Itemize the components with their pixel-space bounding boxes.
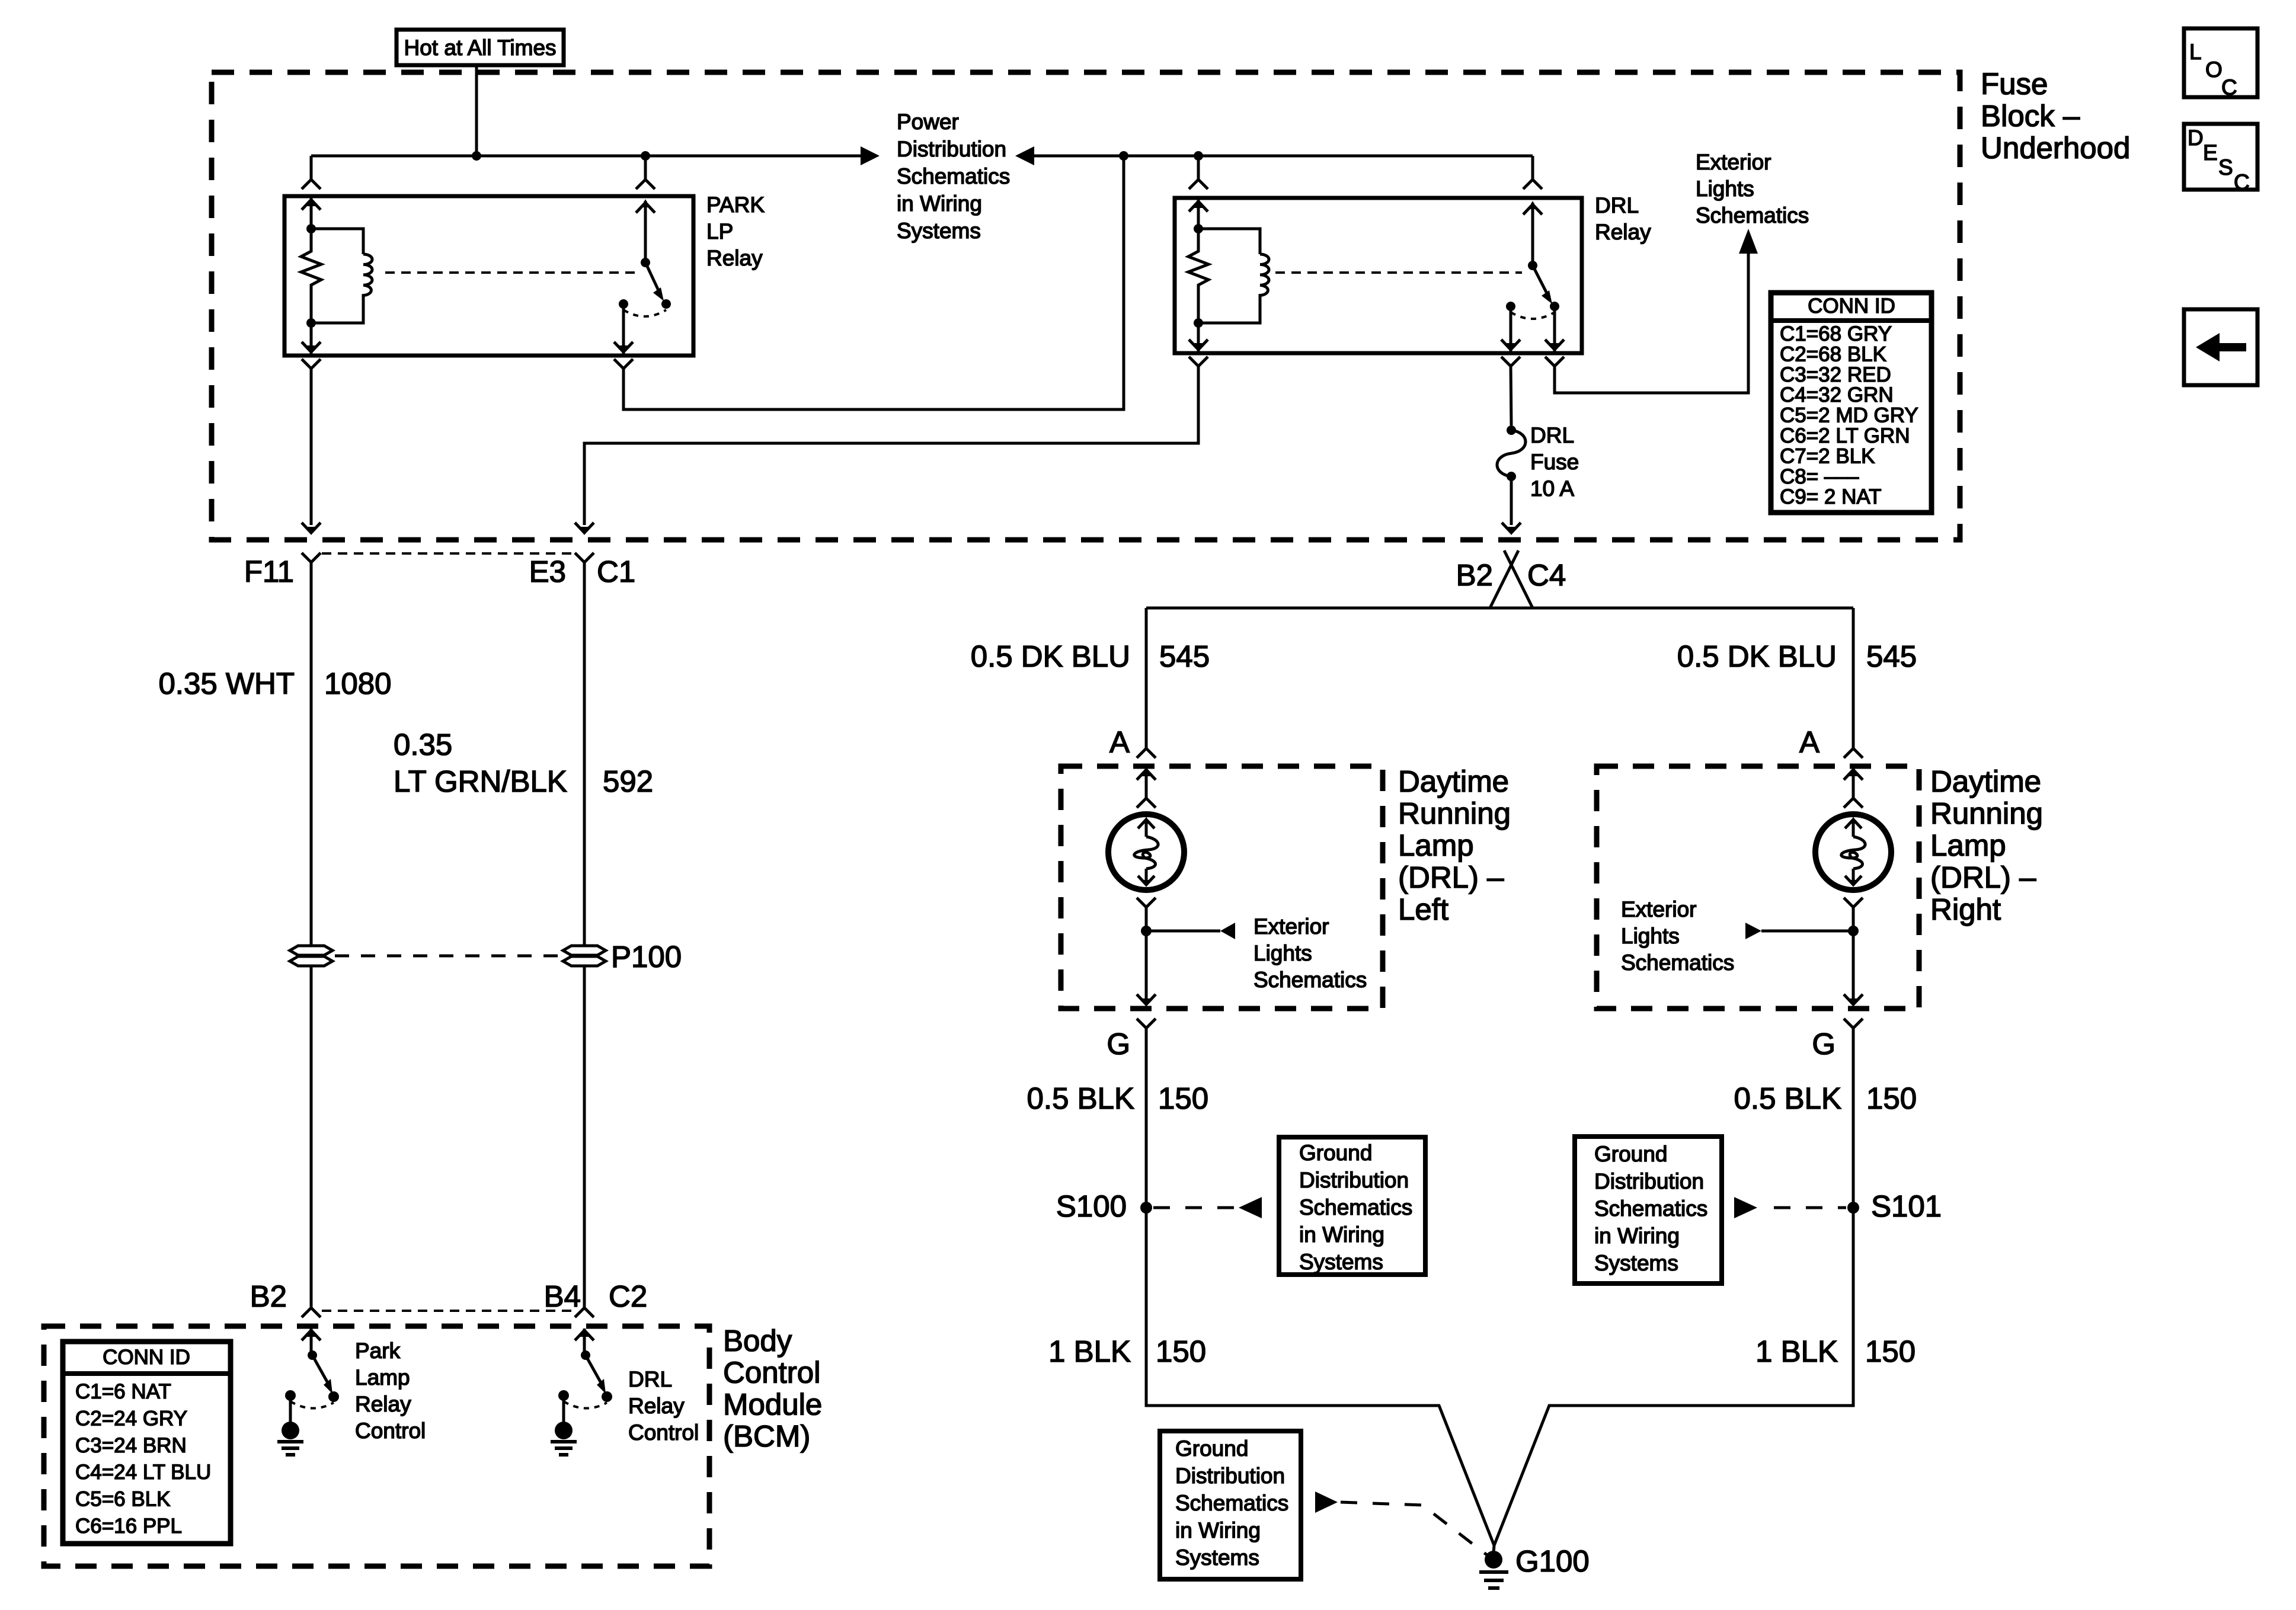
connector fork drl out A [1501, 357, 1520, 366]
svg-text:Distribution: Distribution [897, 137, 1006, 161]
bus1 wire to power distribution [311, 155, 861, 158]
svg-text:G: G [1812, 1027, 1835, 1061]
svg-text:Power: Power [897, 110, 959, 134]
svg-text:E: E [2203, 140, 2218, 165]
svg-text:C6=2 LT GRN: C6=2 LT GRN [1780, 424, 1910, 447]
fuse block underhood dashed enclosure [212, 72, 1960, 540]
connector fork F11 below fuse block [302, 553, 321, 562]
svg-text:in Wiring: in Wiring [1175, 1518, 1261, 1542]
table CONN ID bcm [63, 1342, 231, 1544]
svg-text:LT GRN/BLK: LT GRN/BLK [394, 764, 567, 798]
svg-text:Lights: Lights [1696, 177, 1754, 201]
switch drl relay control with ground [583, 1329, 586, 1355]
pin arrow drl out B [1553, 306, 1556, 351]
svg-text:C4: C4 [1527, 558, 1566, 592]
svg-text:CONN ID: CONN ID [1808, 295, 1895, 318]
pin arrow into fuse block edge B2 [1502, 523, 1521, 533]
svg-text:Control: Control [355, 1419, 426, 1443]
bus2 wire from power distribution to DRL relay [1034, 155, 1533, 158]
svg-text:Distribution: Distribution [1299, 1168, 1409, 1192]
svg-text:C7=2 BLK: C7=2 BLK [1780, 444, 1875, 468]
connector pin park coil top [310, 156, 313, 179]
connector P100 left grommet [290, 946, 332, 955]
node park coil top [306, 224, 316, 233]
inductor park relay coil [311, 254, 372, 323]
contact dot park NO [661, 299, 671, 309]
relay K-PARK LP box [284, 196, 693, 356]
arrowhead left from power distribution [1015, 146, 1034, 165]
svg-text:Park: Park [355, 1339, 401, 1363]
pin arrow drl coil out [1197, 323, 1200, 351]
connector fork drl coil out [1189, 357, 1208, 366]
contact dot drl NO [1550, 302, 1559, 311]
svg-text:C6=16 PPL: C6=16 PPL [75, 1515, 182, 1538]
svg-text:1 BLK: 1 BLK [1048, 1334, 1131, 1368]
svg-text:Underhood: Underhood [1981, 131, 2130, 165]
svg-text:C2=24 GRY: C2=24 GRY [75, 1407, 187, 1430]
inductor drl relay coil [1198, 254, 1269, 323]
svg-text:CONN ID: CONN ID [103, 1346, 190, 1369]
svg-text:C3=32 RED: C3=32 RED [1780, 363, 1891, 386]
svg-text:C5=6 BLK: C5=6 BLK [75, 1488, 171, 1511]
wire park switch out loop to bus2 [623, 156, 1124, 409]
svg-text:C1=6 NAT: C1=6 NAT [75, 1380, 171, 1403]
wire drl out B to exterior lights [1555, 254, 1748, 393]
node drl coil top [1194, 224, 1203, 233]
box DESC [2184, 124, 2257, 190]
svg-text:(BCM): (BCM) [723, 1419, 810, 1453]
svg-text:150: 150 [1158, 1081, 1208, 1115]
svg-text:A: A [1799, 725, 1819, 759]
switch park relay [644, 201, 647, 263]
resistor park relay [301, 229, 321, 323]
wire E3 to P100 [583, 562, 586, 946]
wire right lamp feed [1852, 608, 1855, 748]
svg-text:Systems: Systems [1299, 1250, 1383, 1274]
svg-text:G100: G100 [1515, 1544, 1590, 1578]
svg-text:0.5 BLK: 0.5 BLK [1734, 1081, 1841, 1115]
arrowhead S101 link [1734, 1197, 1757, 1218]
svg-text:Lamp: Lamp [1398, 828, 1474, 862]
node park switch pin junction [641, 151, 650, 161]
connector P100 right grommet [563, 946, 606, 955]
node S101 [1847, 1202, 1859, 1214]
pin arrow park coil out [310, 323, 313, 354]
arrowhead S100 link [1239, 1197, 1262, 1218]
svg-text:C2=68 BLK: C2=68 BLK [1780, 343, 1886, 366]
box ground distribution right [1575, 1137, 1722, 1283]
svg-text:545: 545 [1159, 639, 1210, 673]
wire drl coil out to E3 [584, 366, 1198, 525]
svg-text:Relay: Relay [628, 1394, 685, 1418]
svg-text:(DRL) –: (DRL) – [1398, 860, 1504, 894]
svg-text:Schematics: Schematics [1175, 1491, 1288, 1515]
svg-text:Exterior: Exterior [1621, 897, 1696, 921]
svg-text:Running: Running [1930, 796, 2043, 830]
svg-text:P100: P100 [611, 940, 682, 974]
svg-text:Relay: Relay [1595, 220, 1651, 244]
wire hot feed [475, 65, 478, 156]
svg-text:C: C [2234, 170, 2250, 194]
svg-text:0.35 WHT: 0.35 WHT [158, 667, 295, 700]
dashed actuator link drl [1275, 271, 1522, 274]
svg-text:S100: S100 [1056, 1189, 1127, 1223]
svg-text:Exterior: Exterior [1696, 150, 1771, 174]
switch drl relay [1531, 203, 1534, 265]
node bus2-park-output junction [1119, 151, 1128, 161]
wire drl coil top link [1198, 229, 1260, 254]
connector fork park coil out [302, 359, 321, 369]
contact dot drl NC [1506, 302, 1515, 311]
relay K-DRL box [1175, 198, 1582, 353]
svg-text:Right: Right [1930, 892, 2001, 926]
wire park coil out to F11 [310, 369, 313, 525]
wire fuse to border [1510, 476, 1513, 525]
svg-text:Hot at All Times: Hot at All Times [404, 36, 556, 60]
dashed link S100 [1153, 1206, 1234, 1209]
svg-text:Lamp: Lamp [1930, 828, 2006, 862]
svg-text:B2: B2 [1456, 558, 1493, 592]
svg-text:in Wiring: in Wiring [1594, 1224, 1680, 1248]
ground G100 [1494, 1545, 1494, 1553]
svg-text:C1: C1 [597, 555, 635, 588]
connector break B2-C4 [1504, 550, 1533, 608]
svg-text:Exterior: Exterior [1253, 914, 1329, 939]
svg-text:PARK: PARK [706, 193, 765, 217]
svg-text:Body: Body [723, 1324, 792, 1358]
node bus2-drl-coil junction [1194, 151, 1203, 161]
svg-text:C4=24 LT BLU: C4=24 LT BLU [75, 1461, 211, 1484]
svg-text:C9= 2 NAT: C9= 2 NAT [1780, 485, 1882, 508]
pin arrow park coil in [310, 198, 313, 229]
svg-text:C8= –––: C8= ––– [1780, 465, 1859, 488]
svg-text:0.5 DK BLU: 0.5 DK BLU [971, 639, 1130, 673]
arrowhead up to exterior lights schematics [1739, 229, 1758, 254]
pin arrow into fuse block edge F11 [302, 523, 321, 533]
svg-text:Distribution: Distribution [1594, 1169, 1704, 1193]
svg-text:1 BLK: 1 BLK [1755, 1334, 1838, 1368]
svg-text:Control: Control [628, 1420, 699, 1445]
box LOC [2184, 28, 2257, 97]
pin arrow park switch out [622, 304, 625, 354]
svg-text:C5=2 MD GRY: C5=2 MD GRY [1780, 404, 1918, 427]
node hot-bus1 junction [472, 151, 481, 161]
lamp DRL right dashed box [1597, 766, 1919, 1009]
wire drl out A to fuse [1511, 366, 1511, 425]
lamp feed bus [1146, 607, 1853, 610]
svg-text:S101: S101 [1871, 1189, 1942, 1223]
svg-text:DRL: DRL [628, 1367, 672, 1391]
dashed link P100 [335, 955, 561, 958]
svg-text:592: 592 [603, 764, 653, 798]
svg-text:Running: Running [1398, 796, 1511, 830]
switch park lamp relay control with ground [310, 1329, 313, 1355]
arrowhead right to power distribution [861, 146, 880, 165]
svg-text:150: 150 [1865, 1334, 1916, 1368]
dashed contact arc drl [1511, 312, 1555, 319]
svg-text:DRL: DRL [1530, 423, 1574, 447]
pin arrow drl coil in [1197, 200, 1200, 229]
svg-text:Fuse: Fuse [1981, 67, 2048, 101]
node park coil bottom [306, 318, 316, 328]
dashed link S101 [1774, 1206, 1846, 1209]
wire P100 to BCM B4 [583, 966, 586, 1307]
svg-text:Lamp: Lamp [355, 1365, 410, 1390]
svg-text:A: A [1109, 725, 1130, 759]
contact dot park output [619, 299, 628, 309]
svg-text:L: L [2189, 40, 2202, 64]
svg-text:Systems: Systems [897, 219, 981, 243]
dashed contact arc park [623, 310, 666, 316]
svg-text:B2: B2 [250, 1279, 287, 1313]
svg-text:Schematics: Schematics [897, 164, 1010, 188]
svg-text:Daytime: Daytime [1398, 764, 1509, 798]
svg-text:Systems: Systems [1175, 1545, 1259, 1570]
svg-text:Left: Left [1398, 892, 1448, 926]
fuse DRL 10A [1507, 425, 1516, 435]
svg-text:(DRL) –: (DRL) – [1930, 860, 2036, 894]
svg-text:C1=68 GRY: C1=68 GRY [1780, 322, 1892, 345]
connector pin drl coil top [1197, 156, 1200, 179]
svg-text:10 A: 10 A [1530, 476, 1574, 501]
svg-text:Schematics: Schematics [1696, 203, 1809, 228]
svg-text:D: D [2188, 126, 2204, 150]
svg-text:Schematics: Schematics [1594, 1196, 1707, 1221]
wire F11 to P100 [310, 562, 313, 946]
wire coil top link [311, 229, 363, 254]
svg-text:Ground: Ground [1299, 1141, 1372, 1165]
svg-text:Fuse: Fuse [1530, 450, 1579, 474]
svg-text:Schematics: Schematics [1253, 968, 1367, 992]
svg-text:Lights: Lights [1253, 941, 1312, 965]
svg-text:Relay: Relay [706, 246, 763, 270]
wire left lamp feed [1145, 608, 1148, 748]
svg-text:Distribution: Distribution [1175, 1464, 1285, 1488]
resistor drl relay [1188, 229, 1208, 323]
svg-text:Systems: Systems [1594, 1251, 1678, 1275]
dashed connector line F11-E3 [322, 552, 574, 555]
connector pin drl switch top [1531, 156, 1534, 179]
wire P100 to BCM B2 [310, 966, 313, 1307]
Hot at All Times box [396, 30, 564, 65]
connector fork drl out B [1545, 357, 1564, 366]
arrowhead G100 link [1315, 1491, 1338, 1513]
lamp DRL left dashed box [1061, 766, 1383, 1009]
connector fork E3 below fuse block [575, 553, 594, 562]
svg-text:Schematics: Schematics [1299, 1195, 1412, 1219]
dashed link to G100 [1341, 1502, 1488, 1555]
connector fork park switch out [614, 359, 633, 369]
dashed connector line B2-B4 [322, 1310, 574, 1312]
pin arrow into fuse block edge E3 [575, 523, 594, 533]
box ground distribution left [1279, 1137, 1425, 1275]
svg-text:Module: Module [723, 1387, 822, 1421]
svg-text:Control: Control [723, 1356, 820, 1390]
svg-text:in Wiring: in Wiring [897, 191, 982, 216]
connector pin park switch top [644, 156, 647, 179]
box ground distribution bottom [1160, 1431, 1301, 1579]
svg-text:0.35: 0.35 [394, 728, 452, 761]
BCM dashed enclosure [44, 1326, 709, 1566]
svg-text:150: 150 [1156, 1334, 1206, 1368]
svg-text:LP: LP [706, 219, 733, 244]
dashed actuator link park [385, 271, 635, 274]
svg-text:DRL: DRL [1595, 193, 1639, 217]
svg-text:Lights: Lights [1621, 924, 1680, 948]
svg-text:Daytime: Daytime [1930, 764, 2041, 798]
svg-text:F11: F11 [244, 555, 294, 588]
box back arrow [2184, 309, 2257, 385]
svg-text:Ground: Ground [1594, 1142, 1667, 1166]
svg-text:Schematics: Schematics [1621, 950, 1734, 975]
table CONN ID fuse block [1771, 293, 1932, 513]
svg-text:1080: 1080 [324, 667, 391, 700]
node drl coil bottom [1194, 318, 1203, 328]
wire left lamp ground [1146, 1028, 1494, 1545]
svg-text:0.5 BLK: 0.5 BLK [1027, 1081, 1134, 1115]
svg-text:Relay: Relay [355, 1392, 411, 1416]
svg-text:G: G [1107, 1027, 1130, 1061]
node S100 [1140, 1202, 1152, 1214]
svg-text:C: C [2221, 75, 2237, 100]
svg-text:545: 545 [1866, 639, 1917, 673]
svg-text:B4: B4 [544, 1279, 581, 1313]
wire right lamp ground [1494, 1028, 1853, 1545]
svg-text:C3=24 BRN: C3=24 BRN [75, 1434, 187, 1457]
svg-text:in Wiring: in Wiring [1299, 1222, 1384, 1247]
svg-text:C2: C2 [609, 1279, 647, 1313]
svg-text:Block –: Block – [1981, 99, 2080, 133]
svg-text:S: S [2218, 155, 2233, 180]
svg-text:E3: E3 [529, 555, 566, 588]
svg-text:0.5 DK BLU: 0.5 DK BLU [1677, 639, 1837, 673]
svg-text:Ground: Ground [1175, 1436, 1248, 1461]
pin arrow drl out A [1510, 306, 1512, 351]
svg-text:C4=32 GRN: C4=32 GRN [1780, 383, 1894, 406]
svg-text:O: O [2205, 57, 2223, 82]
svg-text:150: 150 [1866, 1081, 1917, 1115]
